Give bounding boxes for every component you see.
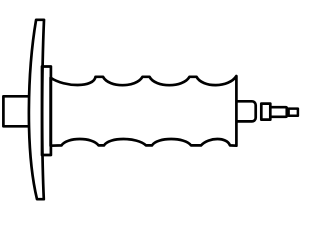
- tip nub: [289, 109, 298, 116]
- ferrule: [235, 101, 256, 121]
- stub: [3, 96, 30, 126]
- collar: [42, 67, 51, 156]
- guard disc: [29, 20, 44, 199]
- grip body: [51, 76, 237, 146]
- ring: [261, 104, 270, 120]
- shaft: [269, 107, 287, 117]
